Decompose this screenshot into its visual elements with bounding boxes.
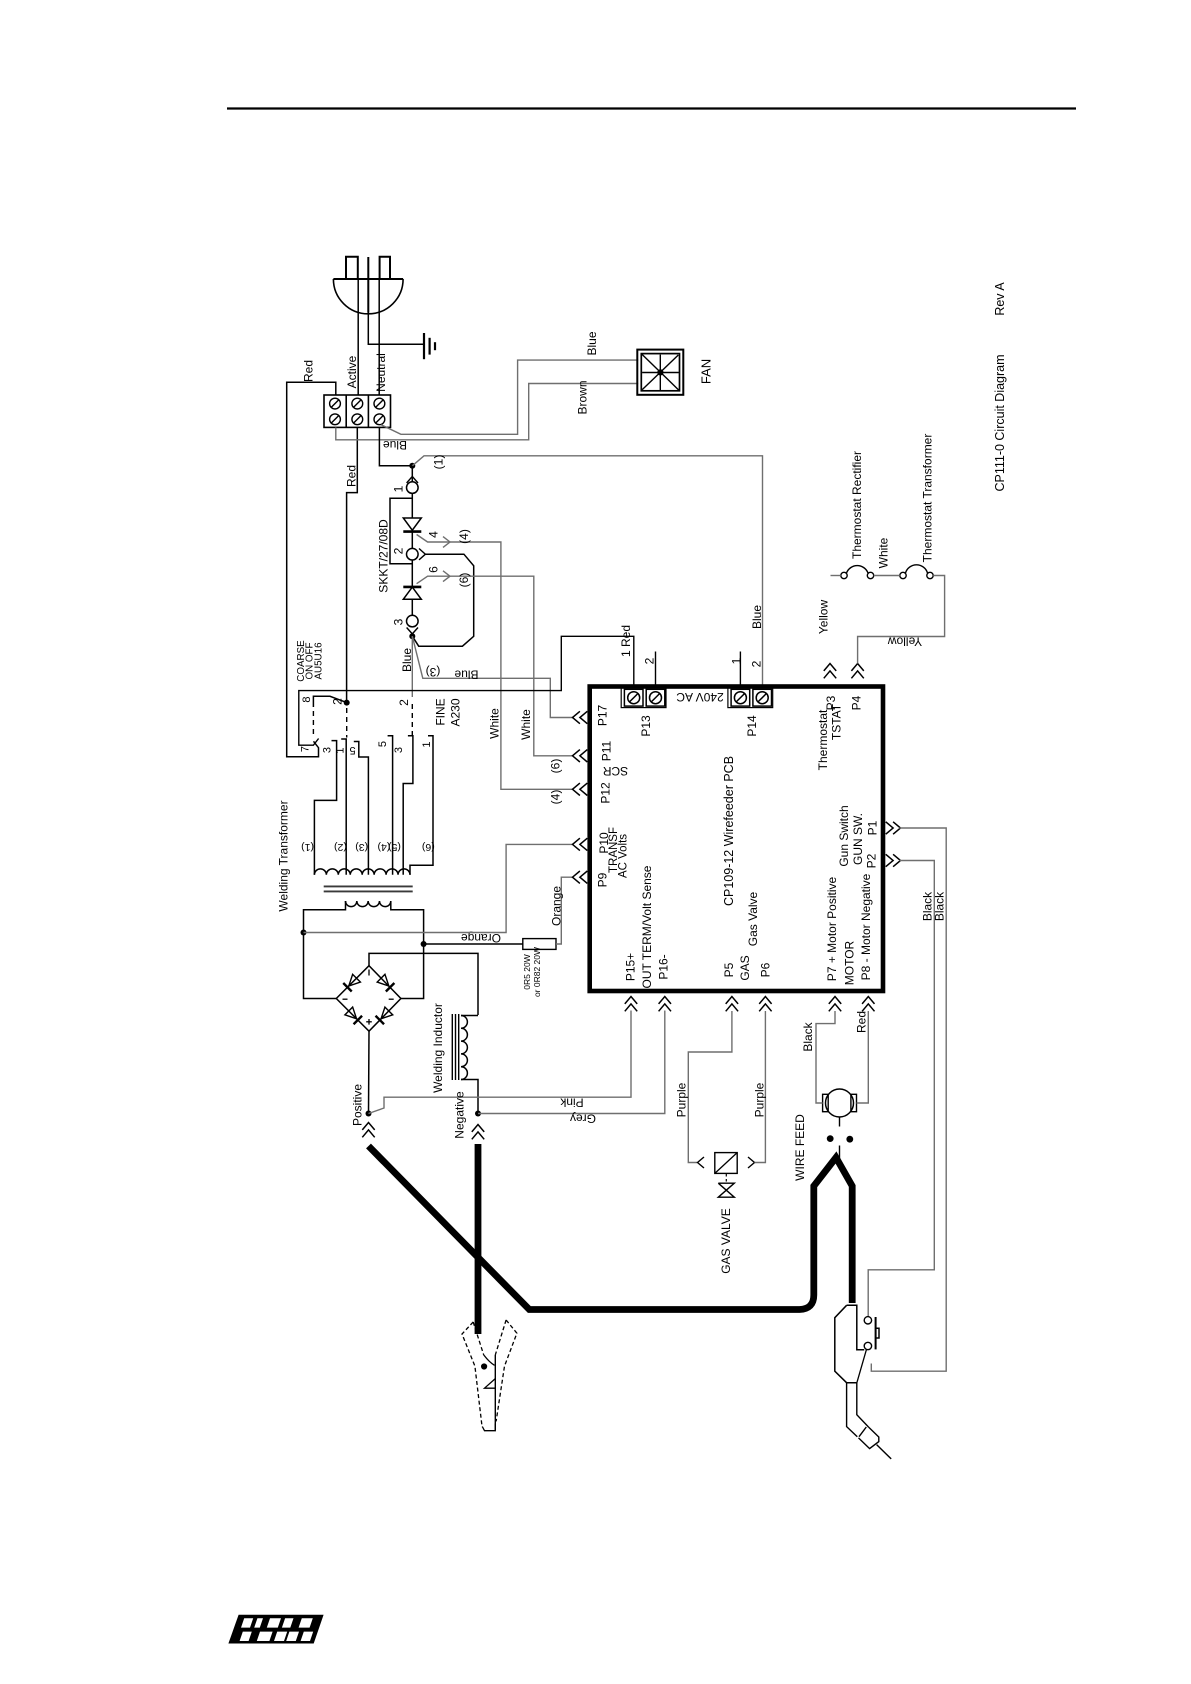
svg-text:Rev A: Rev A <box>993 282 1007 316</box>
label (6) at P11 <box>549 759 563 774</box>
wire motor black to P7 <box>816 1011 835 1103</box>
gas valve symbol <box>718 1174 734 1197</box>
wire terminal 2 loop to node 3 <box>412 554 473 646</box>
svg-text:Black: Black <box>801 1021 815 1051</box>
svg-text:Purple: Purple <box>675 1082 689 1117</box>
label Red (to switch) <box>345 465 359 487</box>
label 3 (fine) <box>393 747 405 753</box>
svg-text:AU5U16: AU5U16 <box>313 642 324 680</box>
wire feed roll shaft <box>839 1117 841 1160</box>
node coarse 2 <box>344 700 350 706</box>
connector P17 chevron <box>573 711 588 723</box>
fine contact 5 wire to tap4 <box>388 736 393 875</box>
wire (3) to P17 <box>412 636 573 717</box>
label 5 (coarse) <box>349 744 355 756</box>
thermostat rectifier and transformer <box>831 565 934 579</box>
svg-text:P5: P5 <box>722 962 736 977</box>
svg-text:Purple: Purple <box>753 1082 767 1117</box>
connector P3 chevron <box>824 664 836 679</box>
label P3 <box>824 695 838 710</box>
label White (4) <box>488 708 502 739</box>
svg-text:Black: Black <box>933 891 947 921</box>
connector P4 chevron <box>851 664 863 679</box>
label GAS VALVE <box>719 1208 733 1274</box>
label P12 <box>599 782 613 804</box>
label 240V AC <box>676 690 724 704</box>
label tap (6) <box>422 841 435 853</box>
label White (thermostat) <box>877 537 891 568</box>
svg-text:Gas Valve: Gas Valve <box>746 891 760 946</box>
svg-text:Neutral: Neutral <box>374 353 388 392</box>
svg-text:6: 6 <box>427 566 441 573</box>
wire brown to fan <box>336 384 638 440</box>
connector P16 chevron <box>659 997 671 1012</box>
label COARSE ON OFF AU5U16 <box>296 640 324 682</box>
svg-text:Yellow: Yellow <box>817 600 831 635</box>
svg-text:P11: P11 <box>600 740 614 761</box>
label 2 (fine) <box>397 699 411 706</box>
label Brown <box>576 380 590 414</box>
arrow 4 <box>443 537 450 548</box>
label SKKT/27/08D <box>377 519 391 593</box>
svg-text:(1): (1) <box>432 455 446 470</box>
positive welding cable <box>369 1146 853 1310</box>
svg-text:(3): (3) <box>426 665 441 679</box>
label Welding Inductor <box>431 1003 445 1093</box>
svg-text:Thermostat Transformer: Thermostat Transformer <box>921 434 935 563</box>
label 4 <box>427 531 441 538</box>
svg-text:1: 1 <box>335 747 347 753</box>
svg-text:GAS VALVE: GAS VALVE <box>719 1208 733 1274</box>
label tap (2) <box>334 841 347 853</box>
label Purple (right) <box>753 1082 767 1117</box>
label CP111-0 Circuit Diagram <box>993 354 1007 491</box>
SCR terminal 1 connector <box>407 476 419 493</box>
svg-text:7: 7 <box>300 746 312 752</box>
wire bridge to positive <box>368 1031 371 1113</box>
svg-text:P16-: P16- <box>657 954 671 979</box>
svg-text:GAS: GAS <box>738 955 752 980</box>
label Positive <box>351 1084 365 1126</box>
svg-text:8: 8 <box>301 696 313 702</box>
node positive terminal <box>366 1111 372 1117</box>
wire terminal2 to thyristor D2 <box>411 560 413 587</box>
coarse contact 1 wire to tap2 <box>341 739 346 875</box>
svg-text:CP109-12 Wirefeeder PCB: CP109-12 Wirefeeder PCB <box>722 756 736 906</box>
svg-text:Pink: Pink <box>559 1096 583 1110</box>
SCR terminal 2 connector <box>407 548 426 560</box>
svg-text:(1): (1) <box>301 841 314 853</box>
svg-text:Blue: Blue <box>400 648 414 672</box>
label P9 <box>596 872 610 887</box>
svg-text:White: White <box>488 708 502 739</box>
P13 screw terminal <box>621 688 666 708</box>
wire gate 6 to P11 <box>417 576 573 756</box>
thyristor D2 <box>403 587 421 599</box>
label P14 <box>745 715 759 737</box>
svg-text:(3): (3) <box>355 841 368 853</box>
label Orange (left) <box>461 931 501 945</box>
wire pink to P15 <box>369 1011 632 1114</box>
label Blue (under terminal) <box>383 438 407 452</box>
P13 pin2 stub <box>655 652 657 689</box>
svg-text:Yellow: Yellow <box>888 635 923 649</box>
connector P2 chevron <box>886 854 901 866</box>
wire D2 to terminal 3 <box>411 599 413 615</box>
label Thermostat <box>816 709 830 770</box>
svg-text:Red: Red <box>855 1011 869 1033</box>
wire yellow thermostat to P4 <box>858 576 945 664</box>
svg-text:FAN: FAN <box>699 359 714 384</box>
wire P1 to torch switch <box>871 828 946 1371</box>
wire earth <box>368 312 423 344</box>
label AC Volts <box>617 834 629 878</box>
svg-text:CP111-0 Circuit Diagram: CP111-0 Circuit Diagram <box>993 354 1007 491</box>
label 1 (P14) <box>730 657 744 664</box>
header rule <box>227 107 1076 109</box>
svg-text:Grey: Grey <box>570 1112 596 1126</box>
WIA logo <box>228 1615 323 1644</box>
wire purple P6 to valve <box>755 1011 766 1163</box>
svg-text:Welding Transformer: Welding Transformer <box>277 800 291 911</box>
coarse contact 7 label <box>300 746 312 752</box>
label CP109-12 Wirefeeder PCB <box>722 756 736 906</box>
wire D1 to terminal 2 <box>411 532 413 549</box>
svg-text:2: 2 <box>750 660 764 667</box>
label 3 (coarse) <box>322 747 334 753</box>
connector P12 chevron <box>573 783 588 795</box>
label 1 (coarse) <box>335 747 347 753</box>
svg-text:5: 5 <box>349 744 355 756</box>
svg-text:(5): (5) <box>388 841 401 853</box>
label 2 (P13) <box>643 657 657 664</box>
svg-text:P2: P2 <box>865 853 879 868</box>
label Gas Valve <box>746 891 760 946</box>
connector P8 chevron <box>862 997 874 1012</box>
svg-text:Gun Switch: Gun Switch <box>837 805 851 866</box>
node orange junction <box>421 941 427 947</box>
label Negative <box>453 1091 467 1139</box>
wire blue node3 to fine switch <box>411 636 413 697</box>
label Red (motor) <box>855 1011 869 1033</box>
label Grey <box>570 1112 596 1126</box>
svg-text:2: 2 <box>392 547 406 554</box>
svg-text:(6): (6) <box>457 573 471 588</box>
fine contact 1 wire to tap6 <box>410 736 433 875</box>
label Orange (P9) <box>550 886 564 926</box>
svg-text:Red: Red <box>302 360 316 382</box>
wire purple P5 to valve <box>688 1011 732 1163</box>
fine contact 3 wire to tap5 <box>403 736 413 875</box>
resistor 0R5 20W <box>523 939 556 950</box>
wire motor red to P8 <box>857 1011 869 1103</box>
node 3 junction <box>409 633 415 639</box>
svg-text:240V AC: 240V AC <box>676 690 724 704</box>
negative chevron <box>472 1125 484 1140</box>
torch handle and switch <box>835 1305 879 1383</box>
svg-text:P7 + Motor Positive: P7 + Motor Positive <box>825 876 839 981</box>
svg-text:TSTAT: TSTAT <box>830 703 844 740</box>
svg-text:AC Volts: AC Volts <box>617 834 629 878</box>
ground symbol <box>424 333 435 359</box>
svg-text:2: 2 <box>331 698 345 705</box>
label White (6) <box>519 709 533 740</box>
label P11 <box>600 740 614 761</box>
label Blue (3) <box>454 668 478 682</box>
label P8 - Motor Negative <box>859 873 873 980</box>
svg-text:1 Red: 1 Red <box>619 625 633 657</box>
coarse switch contact 8 and blade <box>313 696 346 707</box>
label 3 (SCR) <box>392 618 406 625</box>
connector P6 chevron <box>759 997 771 1012</box>
svg-text:5: 5 <box>377 741 389 747</box>
svg-text:0R5 20W: 0R5 20W <box>522 954 532 989</box>
label 1 (SCR) <box>392 485 406 492</box>
svg-text:GUN SW.: GUN SW. <box>851 813 865 865</box>
fine linkage dashed <box>411 704 413 737</box>
svg-text:(2): (2) <box>334 841 347 853</box>
label FINE A230 <box>434 698 463 726</box>
label Gun Switch <box>837 805 851 866</box>
svg-text:White: White <box>519 709 533 740</box>
fan FAN <box>637 350 683 395</box>
wire active (plug to terminal) <box>357 279 359 395</box>
coarse switch linkage dashed <box>312 711 314 736</box>
coarse linkage dash2 <box>346 708 348 738</box>
label 1 (fine) <box>421 741 433 747</box>
label P17 <box>596 705 610 727</box>
svg-text:3: 3 <box>392 618 406 625</box>
label P13 <box>639 715 653 737</box>
label Blue (fan) <box>585 331 599 355</box>
earth clamp <box>462 1320 517 1431</box>
svg-text:Thermostat: Thermostat <box>816 709 830 770</box>
svg-text:(6): (6) <box>549 759 563 774</box>
label tap (1) <box>301 841 314 853</box>
svg-text:SKKT/27/08D: SKKT/27/08D <box>377 519 391 593</box>
svg-text:P14: P14 <box>745 715 759 737</box>
bridge rectifier BR1 <box>336 966 401 1031</box>
svg-text:4: 4 <box>427 531 441 538</box>
node (1) junction <box>409 463 415 469</box>
label P16- <box>657 954 671 979</box>
connector P5 chevron <box>726 997 738 1012</box>
svg-text:or 0R82 20W: or 0R82 20W <box>532 947 542 997</box>
wire bracket terminals 1-2 <box>390 498 412 564</box>
svg-text:Blue: Blue <box>585 331 599 355</box>
svg-text:P12: P12 <box>599 782 613 804</box>
label TRANSF <box>608 827 620 873</box>
label SCR (rotated) <box>603 764 629 778</box>
svg-text:P9: P9 <box>596 872 610 887</box>
coarse contact 3 wire to tap1 <box>314 741 336 875</box>
terminal block TB1 <box>324 395 391 427</box>
svg-text:White: White <box>877 537 891 568</box>
label Red (mains) <box>302 360 316 382</box>
wire secondary left lead <box>304 901 346 999</box>
label Thermostat Transformer <box>921 434 935 563</box>
svg-text:Negative: Negative <box>453 1091 467 1139</box>
svg-text:3: 3 <box>322 747 334 753</box>
connector P9 chevron <box>573 871 588 883</box>
label 0R5 20W <box>522 947 542 997</box>
svg-text:(4): (4) <box>457 529 471 544</box>
svg-text:FINE: FINE <box>434 698 448 725</box>
wire terminal1 to thyristor D1 <box>411 493 413 518</box>
positive chevron <box>362 1123 374 1138</box>
arrow 6 <box>443 571 450 582</box>
label WIRE FEED <box>793 1114 807 1181</box>
svg-text:P13: P13 <box>639 715 653 737</box>
valve arrow right <box>748 1157 755 1168</box>
wire neutral (plug to terminal) <box>378 279 380 395</box>
wire (1) blue to P14 <box>412 456 762 688</box>
label 2 (SCR) <box>392 547 406 554</box>
SCR terminal 3 connector <box>407 615 419 634</box>
label Purple (left) <box>675 1082 689 1117</box>
wire secondary right lead <box>391 901 424 999</box>
svg-text:(6): (6) <box>422 841 435 853</box>
label OUT TERM/Volt Sense <box>640 865 654 988</box>
label Yellow (horiz) <box>888 635 923 649</box>
label MOTOR <box>843 940 857 985</box>
svg-text:2: 2 <box>643 657 657 664</box>
svg-text:P17: P17 <box>596 705 610 727</box>
label Rev A <box>993 282 1007 316</box>
label P10 <box>597 832 611 854</box>
label 8 <box>301 696 313 702</box>
label Thermostat Rectifier <box>850 451 864 559</box>
label (4) gate <box>457 529 471 544</box>
connector P10 chevron <box>573 838 588 850</box>
label Black (motor) <box>801 1021 815 1051</box>
wire red left <box>287 382 336 757</box>
svg-text:Brown: Brown <box>576 380 590 414</box>
label Yellow (vert) <box>817 600 831 635</box>
label (1) <box>432 455 446 470</box>
svg-text:2: 2 <box>397 699 411 706</box>
svg-text:OUT TERM/Volt Sense: OUT TERM/Volt Sense <box>640 865 654 988</box>
label P1 <box>866 820 880 835</box>
svg-text:A230: A230 <box>449 698 463 726</box>
PCB CP109-12 outline <box>590 687 883 992</box>
node negative terminal <box>475 1111 481 1117</box>
label P15+ <box>624 953 638 981</box>
connector P1 chevron <box>886 822 901 834</box>
label Welding Transformer <box>277 800 291 911</box>
svg-text:3: 3 <box>393 747 405 753</box>
coarse contact 5 wire to tap3 <box>354 742 369 875</box>
label (3) <box>426 665 441 679</box>
svg-text:Active: Active <box>345 355 359 388</box>
label P5 <box>722 962 736 977</box>
wire gate 4 to P12 <box>417 535 573 790</box>
welding inductor L1 <box>452 1014 478 1114</box>
mains plug <box>333 257 403 314</box>
svg-text:Blue: Blue <box>750 605 764 629</box>
welding transformer T1 <box>314 869 412 907</box>
P14 screw terminal <box>728 688 773 708</box>
svg-text:MOTOR: MOTOR <box>843 940 857 985</box>
label Blue (node3) <box>400 648 414 672</box>
label 5 (fine) <box>377 741 389 747</box>
svg-text:Blue: Blue <box>454 668 478 682</box>
negative welding cable <box>475 1144 482 1334</box>
thyristor D1 <box>403 518 421 532</box>
label 2 (P14) <box>750 660 764 667</box>
label 2 (coarse) <box>331 698 345 705</box>
label FAN <box>699 359 714 384</box>
svg-text:P15+: P15+ <box>624 953 638 981</box>
label Active <box>345 355 359 388</box>
connector P11 chevron <box>573 750 588 762</box>
label 1 Red (P13) <box>619 625 633 657</box>
wire red (active to coarse switch) <box>347 427 358 702</box>
svg-text:P6: P6 <box>759 962 773 977</box>
wire bridge to inductor <box>369 953 478 1015</box>
node secondary left <box>301 930 307 936</box>
label tap (4) <box>377 841 390 853</box>
label Pink <box>559 1096 583 1110</box>
svg-text:SCR: SCR <box>603 764 629 778</box>
connector P7 chevron <box>829 997 841 1012</box>
svg-text:Thermostat Rectifier: Thermostat Rectifier <box>850 451 864 559</box>
wire orange to P9 <box>556 877 573 944</box>
svg-text:Orange: Orange <box>550 886 564 926</box>
wire to P10 <box>304 844 574 932</box>
svg-text:1: 1 <box>392 485 406 492</box>
svg-text:Positive: Positive <box>351 1084 365 1126</box>
wire node to SCR terminal 1 <box>411 466 413 482</box>
wire blue to fan <box>381 360 638 434</box>
svg-text:1: 1 <box>421 741 433 747</box>
label tap (5) <box>388 841 401 853</box>
torch neck and nozzle <box>847 1383 892 1459</box>
svg-text:P8 - Motor Negative: P8 - Motor Negative <box>859 873 873 980</box>
gas valve coil <box>715 1153 737 1174</box>
svg-text:(4): (4) <box>549 790 563 805</box>
svg-text:WIRE FEED: WIRE FEED <box>793 1114 807 1181</box>
wire grey to P16 <box>478 1011 665 1114</box>
label P7 + Motor Positive <box>825 876 839 981</box>
svg-text:Welding Inductor: Welding Inductor <box>431 1003 445 1093</box>
feed roll dots <box>827 1135 853 1142</box>
svg-text:Red: Red <box>345 465 359 487</box>
wire coarse to P13 <box>299 636 634 745</box>
label TSTAT <box>830 703 844 740</box>
label GAS <box>738 955 752 980</box>
svg-text:P1: P1 <box>866 820 880 835</box>
label Blue (P14 wire) <box>750 605 764 629</box>
valve arrow left <box>698 1157 705 1168</box>
wire neutral to node <box>379 427 412 465</box>
svg-text:1: 1 <box>730 657 744 664</box>
label 6 <box>427 566 441 573</box>
wire orange left <box>424 943 523 945</box>
wire P2 to torch switch <box>868 861 934 1317</box>
label (6) gate <box>457 573 471 588</box>
connector P15 chevron <box>625 997 637 1012</box>
label Black 2 <box>933 891 947 921</box>
label Neutral <box>374 353 388 392</box>
label (4) at P12 <box>549 790 563 805</box>
label Black 1 <box>921 891 935 921</box>
label P4 <box>850 695 864 710</box>
label P6 <box>759 962 773 977</box>
label P2 <box>865 853 879 868</box>
motor M1 <box>823 1089 857 1117</box>
label tap (3) <box>355 841 368 853</box>
